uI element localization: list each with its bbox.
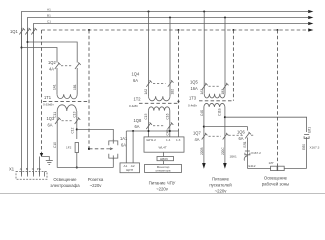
- arrow N to PE: [40, 153, 43, 157]
- svg-text:4A: 4A: [195, 137, 200, 142]
- svg-text:1Q8: 1Q8: [134, 118, 142, 123]
- wire 1T1 secondary legs: [57, 111, 77, 168]
- svg-text:1Q6: 1Q6: [237, 130, 245, 135]
- drop A1 to 1T3: [203, 10, 205, 12]
- svg-text:6A: 6A: [48, 122, 53, 127]
- svg-text:1А1: 1А1: [53, 84, 57, 90]
- svg-text:PE: PE: [37, 167, 41, 171]
- screen dashed 1T1: [43, 101, 89, 103]
- svg-text:16A: 16A: [191, 86, 199, 91]
- svg-text:ЕЛ1: ЕЛ1: [307, 127, 311, 133]
- svg-text:Х167.2: Х167.2: [251, 151, 261, 155]
- node 1T2 right at bus: [169, 130, 171, 132]
- svg-text:С11: С11: [53, 112, 57, 118]
- bus N dashed: [42, 29, 309, 31]
- svg-text:ШП1.2: ШП1.2: [147, 138, 157, 142]
- svg-text:A1: A1: [47, 7, 51, 11]
- svg-text:ЕЛ0: ЕЛ0: [302, 144, 306, 150]
- arrow B1: [308, 16, 313, 19]
- node 1T2 left at bus: [147, 130, 149, 132]
- node socket branch: [76, 128, 78, 130]
- node feeder B to 1T1: [26, 41, 28, 43]
- wire 1T1 primary legs: [57, 68, 77, 94]
- svg-text:1.3: 1.3: [176, 138, 181, 142]
- wire SHCHUP left: [125, 131, 127, 163]
- svg-text:~220v: ~220v: [156, 187, 169, 192]
- dashed N drop x277: [277, 30, 279, 166]
- connector X167.2: [245, 151, 250, 155]
- svg-text:4A: 4A: [49, 66, 54, 71]
- svg-text:рабочей зоны: рабочей зоны: [262, 182, 290, 187]
- wire PE vertical: [39, 157, 41, 175]
- wire 1T3 secondary legs: [204, 107, 225, 163]
- svg-text:1В2: 1В2: [171, 89, 175, 95]
- dashed N to socket: [89, 148, 107, 150]
- svg-text:WL4T: WL4T: [159, 146, 167, 150]
- breaker 1Q8: [146, 122, 173, 129]
- wire socket branch: [77, 129, 114, 140]
- wire feeder y42 to 1T1 right: [28, 42, 78, 63]
- wire PE link: [42, 157, 50, 161]
- svg-text:Освещение: Освещение: [264, 176, 288, 181]
- node N drop x89: [88, 148, 90, 150]
- bus C1: [34, 24, 309, 35]
- wire feeder y47.5 to 1T1 left: [22, 48, 58, 63]
- dashed N drop x89: [88, 30, 90, 149]
- arrow N: [308, 28, 313, 31]
- transformer 1T1 secondary: [57, 105, 76, 111]
- svg-text:1T1: 1T1: [44, 95, 52, 100]
- wire 1T2 secondary legs: [149, 111, 170, 137]
- svg-text:1T2: 1T2: [134, 96, 142, 101]
- box TsV06: [157, 157, 174, 161]
- svg-text:1В1: 1В1: [73, 84, 77, 90]
- node feeder A to 1T1: [20, 46, 22, 48]
- bus A1: [22, 12, 309, 48]
- wire SHCHUP right: [132, 131, 134, 163]
- breaker 1Q2: [55, 62, 81, 69]
- svg-text:С4Б: С4Б: [166, 129, 170, 135]
- fuse 1F2: [75, 143, 78, 153]
- svg-text:A: A: [20, 167, 23, 171]
- node N tap 1T2: [178, 101, 180, 103]
- breaker 1Q3: [55, 117, 80, 124]
- svg-text:X1: X1: [9, 167, 15, 172]
- transformer 1T3 secondary: [204, 103, 225, 107]
- box monitor: [145, 164, 182, 172]
- svg-text:1А3: 1А3: [200, 89, 204, 95]
- arrow starter B: [223, 163, 227, 169]
- svg-text:6A: 6A: [133, 78, 138, 83]
- svg-text:1БК1: 1БК1: [230, 155, 238, 159]
- svg-text:6A: 6A: [121, 142, 126, 147]
- svg-text:220В: 220В: [200, 148, 204, 155]
- box SHCHUP: [120, 163, 140, 173]
- breaker 1Q5: [202, 83, 229, 90]
- drop A1 to 1T2: [147, 10, 149, 12]
- breaker 1Q4: [146, 80, 173, 87]
- dashed N drop x233: [232, 30, 234, 101]
- svg-text:6A: 6A: [135, 124, 140, 129]
- arrow starter A: [202, 163, 206, 169]
- transformer 1T3 primary: [204, 94, 225, 98]
- wire 1T2 right primary: [169, 18, 171, 97]
- wire 1T2 left primary: [148, 12, 150, 97]
- transformer 1T2 primary: [149, 96, 171, 101]
- transformer 1T2 secondary: [149, 107, 170, 111]
- wire to X167.3: [225, 117, 307, 132]
- terminal X1: [16, 172, 47, 180]
- svg-text:B: B: [26, 167, 28, 171]
- dashed N drop to pin 1.3: [178, 30, 180, 131]
- svg-text:C: C: [32, 167, 35, 171]
- svg-text:оператора: оператора: [155, 169, 170, 173]
- svg-text:пускателей: пускателей: [209, 183, 232, 188]
- svg-text:1В3: 1В3: [221, 89, 225, 95]
- svg-text:0.4кВт: 0.4кВт: [188, 103, 198, 107]
- svg-text:1T3: 1T3: [189, 96, 197, 101]
- contact 1BK1: [244, 155, 247, 161]
- node N bus x178: [178, 29, 180, 31]
- socket XS1: [107, 140, 118, 168]
- screen dashed 1T3: [199, 100, 233, 102]
- svg-text:Х167.3: Х167.3: [310, 146, 320, 150]
- svg-text:Питание ЧПУ: Питание ЧПУ: [149, 181, 176, 186]
- wire lamp bottom: [57, 167, 113, 169]
- bus B1: [28, 18, 309, 43]
- svg-text:С12: С12: [71, 127, 75, 133]
- wire phase C vertical: [33, 28, 35, 175]
- svg-text:0.4кВт: 0.4кВт: [129, 104, 139, 108]
- node N bus x233: [232, 29, 234, 31]
- svg-text:6A: 6A: [239, 136, 244, 141]
- box 1A1 CNC: [144, 137, 184, 152]
- svg-text:0.63кВт: 0.63кВт: [43, 103, 54, 107]
- svg-text:Розетка: Розетка: [88, 177, 104, 182]
- wire 1T3 left primary: [203, 12, 205, 94]
- node lighting tap: [224, 116, 226, 118]
- connector X167.3: [304, 135, 309, 169]
- svg-text:1F2: 1F2: [66, 145, 72, 149]
- arrow C1: [308, 22, 313, 25]
- wire 1Q6 down: [246, 138, 248, 169]
- svg-text:~220v: ~220v: [90, 183, 103, 188]
- wire 1T3 right primary: [224, 18, 226, 94]
- wire box feed bus: [126, 130, 178, 132]
- svg-text:1.4: 1.4: [166, 138, 171, 142]
- svg-text:Е112: Е112: [249, 164, 256, 168]
- drop B1 to 1T3: [224, 16, 226, 18]
- svg-text:Освещение: Освещение: [53, 177, 77, 182]
- breaker 1Q6: [229, 132, 255, 139]
- svg-text:С15: С15: [144, 113, 148, 119]
- svg-text:1Q2: 1Q2: [48, 60, 56, 65]
- svg-text:220С: 220С: [221, 147, 225, 155]
- svg-text:С13: С13: [73, 111, 77, 117]
- svg-text:С10: С10: [53, 142, 57, 148]
- svg-text:1A1: 1A1: [120, 136, 128, 141]
- wire pin 1.3: [178, 131, 180, 137]
- wire to 1Q6: [204, 127, 248, 131]
- node starter left: [203, 126, 205, 128]
- frame line bottom: [0, 193, 325, 195]
- lamp 1LG: [271, 166, 285, 170]
- svg-text:электрошкафа: электрошкафа: [50, 183, 80, 188]
- breaker 1Q7: [202, 133, 229, 140]
- svg-text:B1: B1: [47, 13, 51, 17]
- node lamp wire: [76, 166, 78, 168]
- svg-text:~220v: ~220v: [215, 189, 228, 194]
- svg-text:1ЛГ: 1ЛГ: [269, 161, 275, 165]
- svg-text:1Q5: 1Q5: [190, 79, 198, 84]
- svg-text:1Q1: 1Q1: [10, 29, 18, 34]
- wire box to TsV06: [163, 152, 165, 164]
- svg-text:С4Б: С4Б: [200, 110, 204, 116]
- wire phase A vertical: [21, 28, 23, 175]
- node N bus x89: [88, 29, 90, 31]
- svg-text:C1: C1: [47, 19, 51, 23]
- drop B1 to 1T2: [169, 16, 171, 18]
- svg-text:С16: С16: [166, 113, 170, 119]
- svg-text:С11Б: С11Б: [218, 108, 222, 116]
- transformer 1T1 primary: [57, 94, 77, 99]
- svg-text:1Q7: 1Q7: [193, 131, 201, 136]
- node N bus x277: [277, 29, 279, 31]
- arrow A1: [308, 10, 313, 13]
- wire lamp bottom right: [247, 167, 306, 169]
- ground: [46, 161, 53, 165]
- svg-text:Питание: Питание: [212, 177, 230, 182]
- svg-text:ЩУП: ЩУП: [126, 168, 133, 172]
- svg-text:1Q4: 1Q4: [132, 72, 140, 77]
- breaker 1Q1: [19, 28, 37, 35]
- node SHCHUP right: [132, 130, 134, 132]
- wire phase B vertical: [27, 28, 29, 175]
- screen dashed 1T2: [139, 102, 179, 104]
- svg-text:ЕЛ1: ЕЛ1: [243, 141, 247, 147]
- wire fuse bottom: [76, 153, 78, 168]
- dashed N left drop to PE: [41, 30, 43, 156]
- svg-text:1А2: 1А2: [144, 89, 148, 95]
- svg-text:ЦВ06: ЦВ06: [160, 157, 168, 161]
